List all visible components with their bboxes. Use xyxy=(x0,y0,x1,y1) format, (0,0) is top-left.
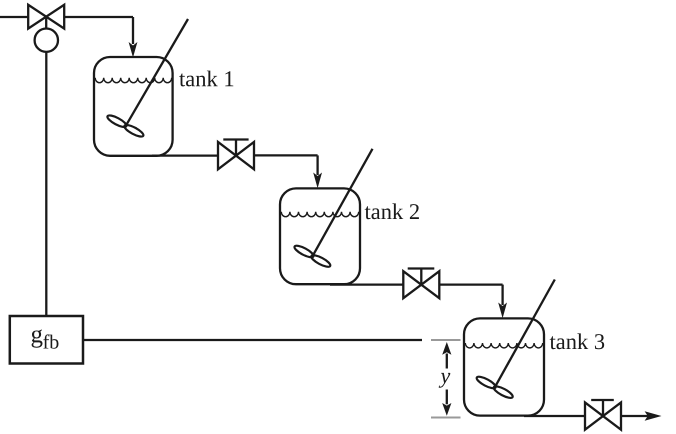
wire actuator to controller g_fb xyxy=(45,52,47,316)
wire valve V3 to corner xyxy=(439,283,502,285)
wire tank 3 outlet xyxy=(524,415,585,417)
label y xyxy=(439,373,451,388)
valve V4 stem xyxy=(602,400,604,416)
wire controller measurement line xyxy=(83,339,422,341)
valve V4 body xyxy=(585,402,621,429)
wire down into tank 1 xyxy=(129,17,138,58)
valve V3 stem xyxy=(420,269,422,285)
valve V3 handle xyxy=(408,267,435,269)
valve V4 handle xyxy=(591,399,614,401)
label tank 1 xyxy=(179,71,233,87)
tank 1 vessel xyxy=(94,57,173,156)
wire tank 2 outlet xyxy=(330,283,403,285)
dimension arrow down xyxy=(442,390,451,416)
tank 2 impeller xyxy=(293,244,332,269)
wire down into tank 2 xyxy=(313,155,322,188)
tank 1 liquid surface xyxy=(95,78,172,83)
valve V2 body xyxy=(218,142,254,169)
tank 1 stirrer shaft xyxy=(126,19,188,126)
wire outlet with arrow xyxy=(621,411,662,420)
tank 3 liquid surface xyxy=(465,343,542,348)
tank 2 vessel xyxy=(280,188,360,284)
actuator circle xyxy=(35,29,58,52)
wire control valve to corner xyxy=(64,16,133,18)
control valve stem xyxy=(45,17,47,29)
level tick top xyxy=(431,339,461,341)
valve V3 body xyxy=(403,271,439,298)
tank 2 stirrer shaft xyxy=(313,149,373,256)
level tick bottom xyxy=(431,417,461,419)
label g_fb xyxy=(32,330,59,349)
tank 3 impeller xyxy=(475,375,514,400)
control valve V1 xyxy=(28,5,64,29)
wire inlet to control valve xyxy=(0,16,28,18)
dimension arrow up xyxy=(442,342,451,369)
wire valve V2 to corner xyxy=(254,154,318,156)
tank 3 stirrer shaft xyxy=(495,280,555,388)
tank 3 vessel xyxy=(464,318,544,415)
tank 1 impeller xyxy=(106,113,145,138)
label tank 2 xyxy=(365,203,419,219)
label tank 3 xyxy=(550,333,605,349)
wire tank 1 outlet xyxy=(152,154,218,156)
controller box g_fb xyxy=(10,316,83,364)
valve V2 stem xyxy=(235,140,237,156)
valve V2 handle xyxy=(223,138,248,140)
wire down into tank 3 xyxy=(498,285,507,319)
tank 2 liquid surface xyxy=(281,212,358,217)
